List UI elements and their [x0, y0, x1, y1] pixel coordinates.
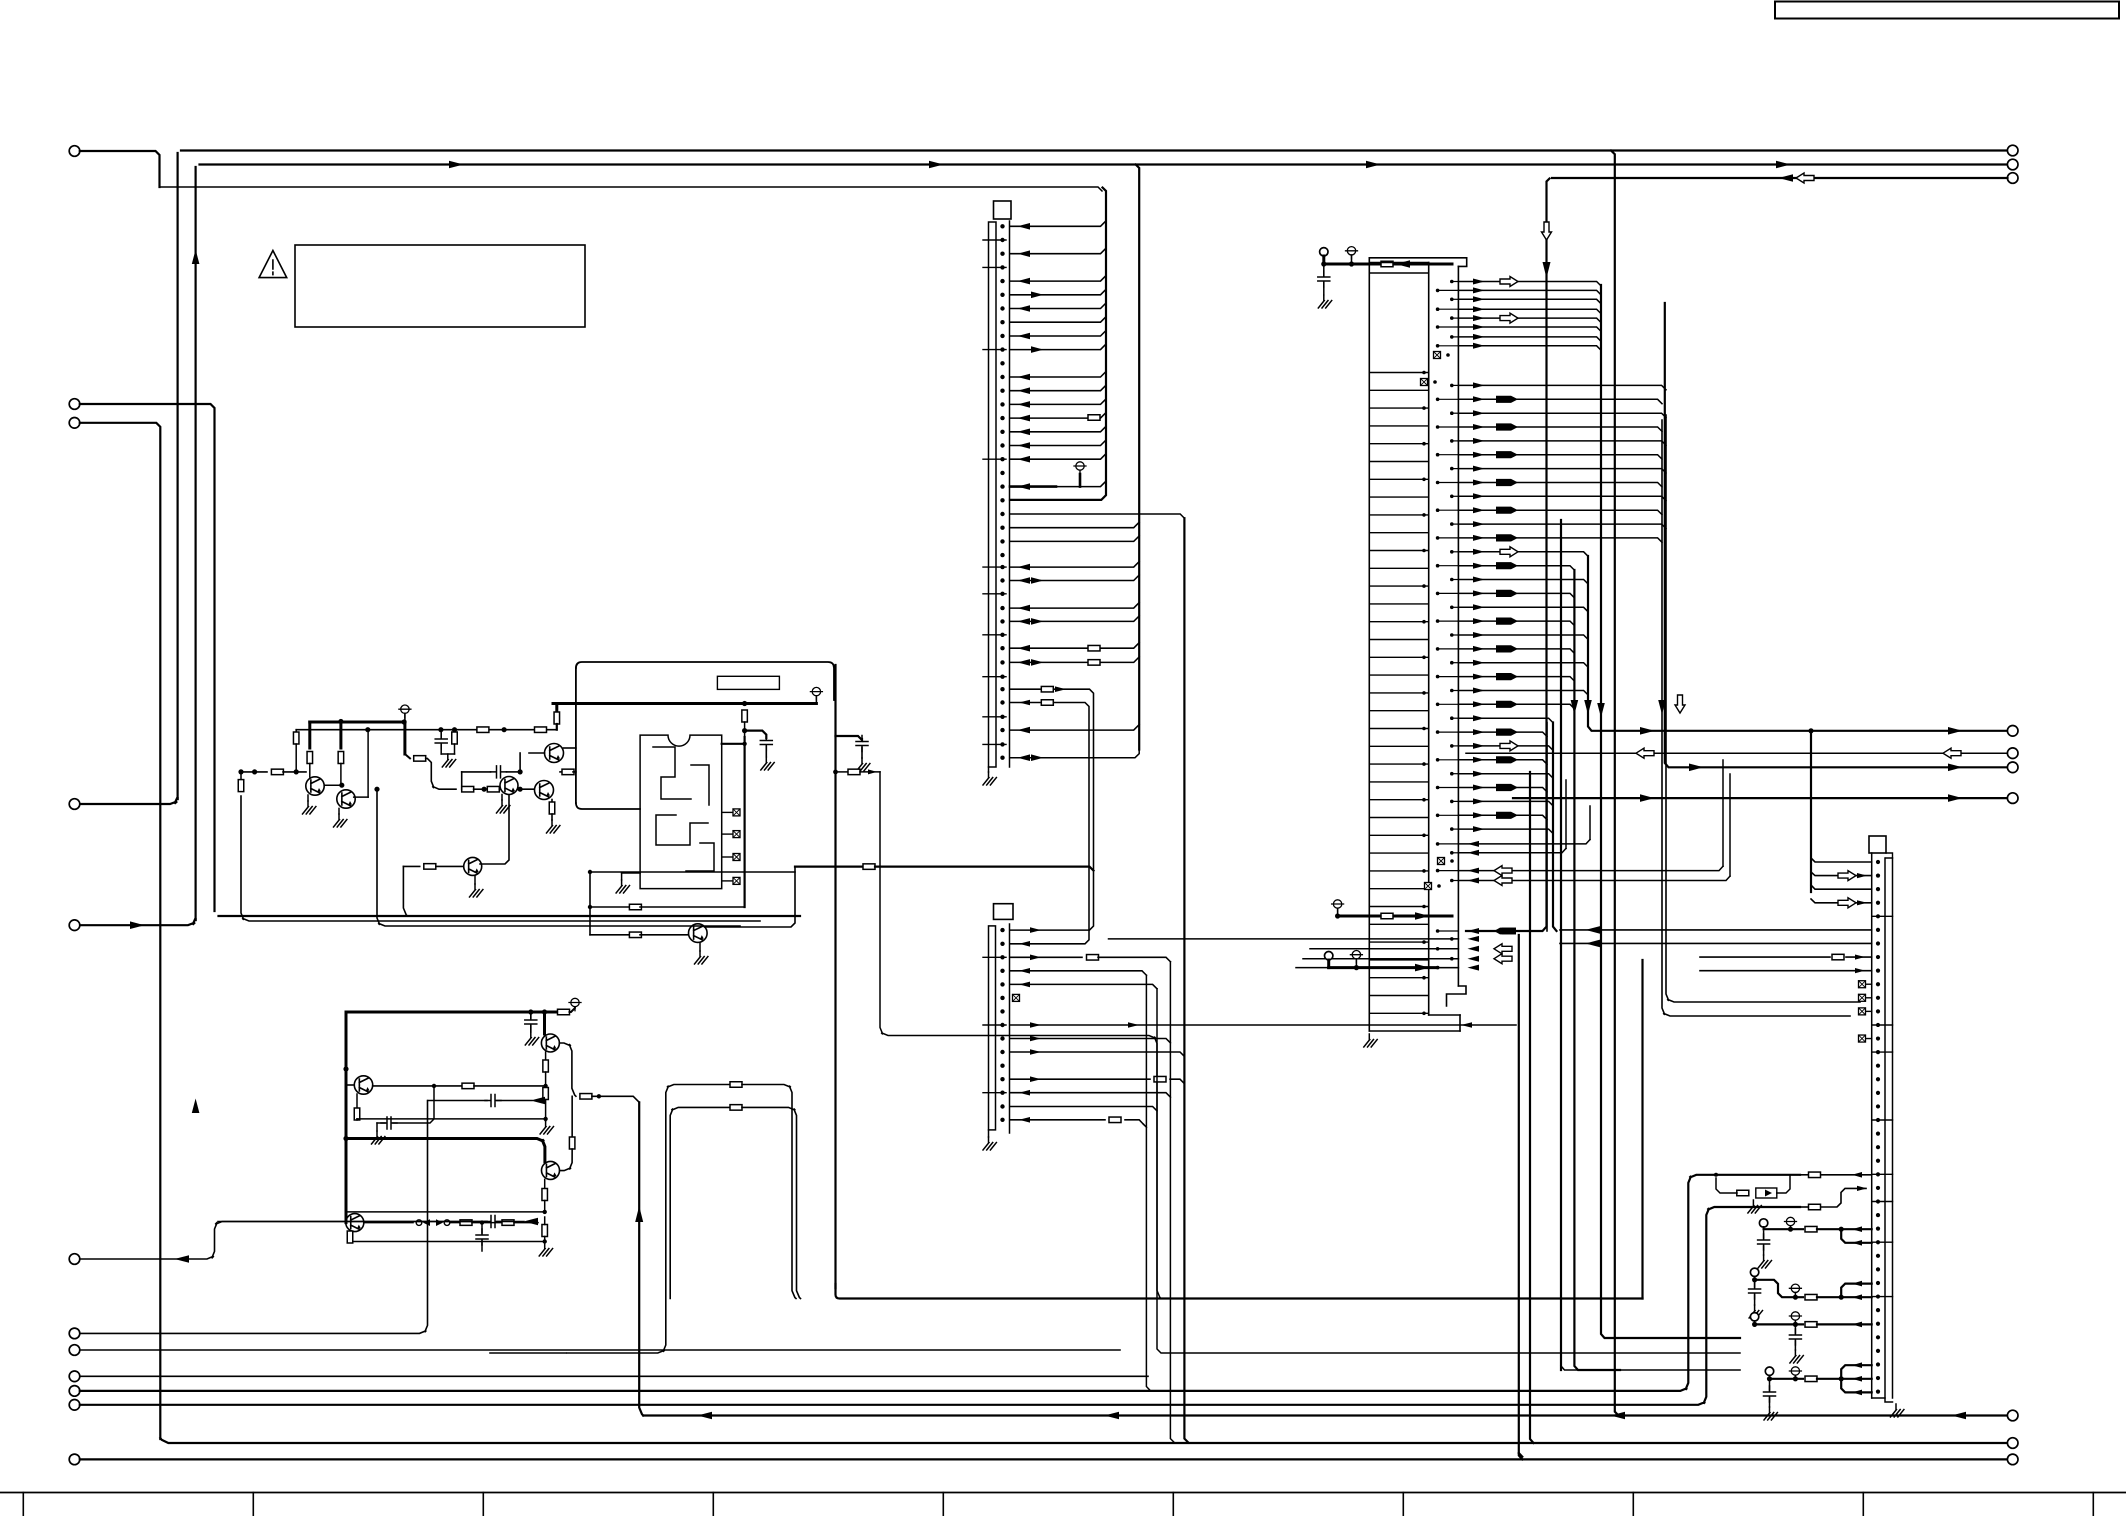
- IC1 top terminal circle: [1320, 248, 1328, 256]
- wire after resistor: [1394, 263, 1452, 266]
- bottom border rule: [0, 1492, 2126, 1494]
- IC1 block H arrows: [1468, 841, 1480, 847]
- connector CN2 key square: [994, 904, 1014, 920]
- lower cluster top bus: [346, 1011, 557, 1014]
- left terminal CN-A12: [69, 1386, 80, 1397]
- transistor Q-c4: [535, 781, 554, 800]
- capacitor C-c2: [461, 772, 463, 789]
- wire CN2 pin12: [1010, 1078, 1150, 1080]
- connector CN3 NC pins: [1866, 983, 1872, 985]
- transistor Q-c3: [545, 744, 564, 763]
- open arrows H: [1494, 866, 1512, 876]
- wire y1459: [80, 1458, 2008, 1460]
- capacitor RC-D: [1769, 1381, 1771, 1390]
- right terminal CN-B8: [2007, 1438, 2018, 1449]
- ground lower cap: [525, 1032, 538, 1045]
- IC1 left lower terminal: [1325, 952, 1333, 960]
- connector CN1 key square: [994, 201, 1012, 219]
- wire y1350: [80, 1349, 1120, 1351]
- vertical VB4: [1611, 151, 1619, 1416]
- bold arrow H1: [1496, 928, 1516, 935]
- resistor R-l5: [544, 1179, 546, 1188]
- left terminal CN-A13: [69, 1400, 80, 1411]
- wire c8 to row: [426, 758, 456, 789]
- wire Q-l4 collector: [364, 1222, 413, 1224]
- wire top bus line 2: [200, 163, 2008, 165]
- CN3 top feed vertical: [1810, 731, 1812, 892]
- connector CN1 wire arrows left: [1018, 223, 1031, 230]
- IC1 bold arrows: [1496, 396, 1518, 403]
- resistor R-c5: [477, 727, 489, 733]
- vertical VB5: [1641, 960, 1643, 1299]
- diode network: [1737, 1190, 1749, 1196]
- connector CN3 notch: [1886, 853, 1893, 858]
- resistor R-c8: [405, 754, 410, 758]
- wire Q-l1 base: [346, 1084, 353, 1086]
- RC network row B: [1750, 1268, 1758, 1276]
- resistor R-l7: [349, 1232, 351, 1234]
- cap row 1: [428, 1100, 487, 1102]
- VB2 arrows: [1542, 222, 1552, 240]
- wire CN2 pin13: [1010, 1093, 1170, 1097]
- connector CN1 spine: [989, 222, 997, 767]
- capacitor RC-A: [1763, 1231, 1765, 1238]
- wire CN2 pin14: [1010, 1107, 1157, 1111]
- transistor Q-c1: [306, 777, 324, 795]
- open arrow A1: [1500, 277, 1518, 287]
- left input wire: [241, 771, 267, 773]
- resistor R-IC1top: [1381, 261, 1393, 267]
- chassis ref CN1: [1076, 462, 1084, 470]
- arrow into V3: [130, 921, 145, 929]
- IC1 pin rail: [1457, 266, 1459, 986]
- wire Q-l1 emitter: [356, 1094, 358, 1108]
- ground RC-c1: [441, 753, 454, 755]
- wire y753 line: [1466, 752, 2008, 754]
- arrows on y730 line: [1640, 727, 1655, 735]
- arrow on bus2 c: [1366, 161, 1381, 169]
- ground IC1 top: [1318, 295, 1331, 308]
- resistor R-c14: [240, 772, 242, 780]
- resistor R-c13: [424, 864, 436, 870]
- wire y1391 to right up: [80, 1175, 1800, 1391]
- IC1 left lower chassis: [1352, 951, 1360, 959]
- resistor R-c7: [271, 769, 283, 775]
- cluster to module resistor: [554, 712, 560, 724]
- cluster bundle c: [377, 789, 740, 926]
- right terminal CN-B9: [2007, 1410, 2018, 1421]
- module bottom bundle: [836, 1284, 1643, 1299]
- up arrow on V3 upper: [192, 250, 200, 265]
- wire CN2 pin15: [1010, 1119, 1105, 1121]
- cluster chassis ref: [401, 705, 409, 713]
- ground Q-c4: [547, 820, 560, 833]
- IC1 NC pins: [1434, 352, 1441, 359]
- vertical VB1: [1530, 772, 1534, 1443]
- wire Q-c1 collector: [324, 784, 341, 786]
- right terminal CN-B10: [2007, 1454, 2018, 1465]
- capacitor C-l2: [481, 1223, 483, 1233]
- cluster thick drop c: [403, 722, 406, 754]
- resistor R-mod1: [742, 710, 748, 722]
- vertical bus V2: [177, 153, 179, 799]
- corner V2 to left terminal: [80, 797, 178, 804]
- connector CN2 spine: [989, 926, 996, 1130]
- VB1 join: [1519, 1453, 1523, 1457]
- connector CN3 spine right: [1884, 858, 1886, 1398]
- left terminal CN-A10: [69, 1345, 80, 1356]
- CN3 wire 8: [1700, 970, 1872, 972]
- ground Q-mod: [699, 942, 701, 951]
- wire CN-A2 down right frame: [80, 404, 215, 911]
- module top rail: [553, 702, 816, 705]
- connector CN3 pin dots: [1876, 860, 1880, 864]
- CN3 wire 1207: [1809, 1204, 1821, 1210]
- arrows y1415: [698, 1412, 713, 1420]
- resistor R-l1: [462, 1083, 474, 1089]
- vertical net V5: [1184, 518, 1188, 1442]
- connector CN2 NC pin: [1013, 994, 1020, 1001]
- IC1 block A wires: [1458, 282, 1601, 351]
- chassis lower bus: [571, 998, 579, 1006]
- vertical VB2: [1466, 179, 1550, 932]
- RC network row D: [1765, 1367, 1773, 1375]
- wire net SDA top thin: [160, 187, 1103, 191]
- ground RC-A: [1758, 1255, 1771, 1268]
- vertical net V4: [1136, 165, 1140, 750]
- wire right mid horizontal 2: [1662, 420, 1850, 1016]
- IC2 NC pins: [722, 811, 733, 813]
- capacitor RC-B: [1754, 1282, 1756, 1287]
- resistor R-l12: [730, 1105, 742, 1111]
- right terminal CN-B1: [2007, 145, 2018, 156]
- wire right mid horizontal 1: [1666, 415, 1860, 1002]
- IC1 right pin dots: [1450, 280, 1454, 284]
- ruler ticks: [23, 1493, 2093, 1516]
- wire CN2 pin10: [1010, 1052, 1184, 1056]
- transistor Q-mod: [689, 924, 708, 943]
- connector CN1 fan wires lower: [1010, 522, 1139, 730]
- IC1 left thick feed: [1333, 900, 1341, 908]
- CN3 wire 1174: [1809, 1172, 1821, 1178]
- wire row 1084 down: [742, 1085, 796, 1299]
- transistor Q-c2: [337, 790, 355, 808]
- wire row to Q-c4 base: [499, 788, 534, 790]
- wire node to V-out: [592, 1096, 639, 1102]
- ground RC-C: [1790, 1350, 1803, 1363]
- left terminal CN-A2: [69, 399, 80, 410]
- arrow on line3 solid: [1779, 174, 1794, 182]
- down arrows group mid: [1658, 700, 1666, 715]
- wire row 1107: [670, 1107, 729, 1298]
- connector CN3 bottom: [1872, 1398, 1893, 1402]
- cap row 2 redo: [80, 1222, 487, 1260]
- vertical CN2-V1: [1146, 975, 1150, 1390]
- ground Q-l2: [545, 1119, 547, 1121]
- wire from CN-A1 to mid bus: [80, 151, 160, 187]
- resistor R-c11: [551, 800, 553, 803]
- wire CN1 pin11 to CN2 pin2: [1010, 702, 1040, 704]
- resistor R-mod4: [863, 864, 875, 870]
- vertical bundle VA2: [1588, 556, 2008, 731]
- left terminal CN-A8: [69, 1254, 80, 1265]
- wire Q-c3 base: [529, 752, 545, 754]
- wire CN-A3 down V1: [80, 423, 161, 1439]
- connector CN3 ticks: [1872, 916, 1893, 1296]
- capacitor C-l1: [377, 1122, 385, 1124]
- connector CN2 ground: [988, 1130, 990, 1137]
- ground Q-c1: [307, 795, 309, 801]
- IC2 DIP outline: [640, 735, 722, 889]
- IC1 H riser b: [1565, 780, 1567, 848]
- left terminal CN-A1: [69, 146, 80, 157]
- IC1 H riser a: [1589, 806, 1591, 840]
- wire Q-mod collector: [705, 868, 796, 927]
- transistor Q-l2: [541, 1034, 559, 1052]
- IC1 H riser d: [1729, 774, 1731, 876]
- open arrow mid1: [1500, 547, 1518, 557]
- connector CN1 fan bottom corner: [1010, 750, 1139, 758]
- resistor R-c9: [462, 786, 474, 792]
- wire row 1211: [346, 1211, 545, 1213]
- module chassis ref: [812, 687, 820, 695]
- wire CN2 pin3: [1010, 956, 1082, 958]
- IC1 chassis ref: [1347, 247, 1355, 255]
- wire y1405 to right up: [80, 1207, 1800, 1405]
- cluster thick bus: [310, 721, 405, 724]
- wire cap to Q-c3: [519, 753, 521, 772]
- IC2 left ground: [621, 873, 623, 880]
- arrow on bus2 d: [1776, 161, 1791, 169]
- IC1 body outline: [1369, 258, 1466, 267]
- wire CN2 pin8 long right: [1010, 1024, 1516, 1026]
- wire row 1241: [350, 1241, 545, 1243]
- capacitor RC-C: [1794, 1326, 1796, 1333]
- ground C-l1: [376, 1123, 378, 1131]
- arrow on bus2 b: [929, 161, 944, 169]
- wire module out down: [880, 772, 1161, 1299]
- resistor R CN1b: [1088, 660, 1100, 666]
- connector CN2 left ticks: [983, 957, 1006, 1092]
- wire y767 line: [1665, 303, 2008, 767]
- wire Q-c2 collector: [354, 796, 368, 798]
- IC1 ground bottom: [1364, 1034, 1377, 1047]
- resistor R-c6: [535, 727, 547, 733]
- mid line y1353: [567, 1085, 729, 1354]
- wire mod1: [744, 722, 746, 744]
- wire Q-l2 collector: [559, 1043, 576, 1096]
- vertical VB3: [1553, 723, 1557, 932]
- transistor Q-l3: [542, 1161, 560, 1179]
- IC1 supply wire: [1322, 256, 1325, 264]
- open arrow A2: [1500, 313, 1518, 323]
- connector CN3 spine left: [1871, 853, 1873, 1398]
- resistor R-c10: [487, 786, 499, 792]
- wire y1376: [80, 1375, 1148, 1377]
- cap row 2: [218, 1221, 487, 1223]
- vertical CN2-V2: [1157, 989, 1740, 1353]
- corner V3 to left terminal: [80, 918, 196, 925]
- IC1 H riser c: [1722, 760, 1724, 866]
- arrow row2: [175, 1255, 190, 1263]
- cluster rail 729: [296, 729, 557, 731]
- cluster thick drop b: [339, 722, 342, 749]
- RC network row C: [1750, 1313, 1758, 1321]
- arrows y798: [1640, 794, 1655, 802]
- CN3 feed wires: [1811, 858, 1872, 862]
- title block: [1775, 2, 2119, 19]
- connector CN3 key square: [1869, 836, 1886, 853]
- lower cluster left rail: [345, 1012, 348, 1139]
- wire Q-c5 base: [403, 865, 419, 867]
- warning triangle: [259, 251, 287, 278]
- module label box: [717, 676, 779, 689]
- ground Q-c6: [501, 795, 503, 801]
- CN3 feed arrows: [1838, 871, 1856, 881]
- wire bus line 3 right: [1552, 177, 2008, 179]
- right terminal CN-B2: [2007, 159, 2018, 170]
- wire input to base: [283, 771, 306, 773]
- IC1 tie dots: [1422, 371, 1426, 375]
- connector CN2 pin dots: [1000, 928, 1004, 932]
- wire CN1 pin10 to CN2 pin1: [1010, 688, 1040, 690]
- arrows y767: [1689, 764, 1704, 772]
- resistor R-l10 inline: [558, 1009, 570, 1015]
- resistor R-l6: [542, 1225, 548, 1237]
- bus to chassis: [570, 1007, 576, 1012]
- ground RC-D: [1764, 1407, 1777, 1420]
- connector CN1 fan vertical upper: [1010, 188, 1106, 500]
- arrow on line3 open: [1796, 173, 1814, 183]
- connector CN3 ground: [1891, 1404, 1904, 1417]
- capacitor C-mod2: [836, 736, 863, 740]
- resistor R-c3: [338, 752, 344, 764]
- resistor R-l2: [545, 1052, 547, 1060]
- connector CN1 wire arrows right: [1031, 292, 1044, 299]
- RC network row A: [1759, 1219, 1767, 1227]
- right terminal CN-B5: [2007, 748, 2018, 759]
- lower cluster out vertical: [639, 1102, 643, 1415]
- connector CN1 ground: [988, 767, 990, 772]
- up arrow lower: [635, 1206, 643, 1222]
- CN3 res wire: [1700, 956, 1830, 958]
- right terminal CN-B3: [2007, 173, 2018, 184]
- ground Q-c2: [338, 808, 340, 814]
- resistor R-l4h: [580, 1094, 592, 1100]
- wire Q-l2: [543, 1012, 546, 1034]
- left terminal CN-A11: [69, 1371, 80, 1382]
- wire row 1107 down: [742, 1107, 801, 1298]
- left terminal CN-A5: [69, 920, 80, 931]
- resistor R-c2: [307, 752, 313, 764]
- CN3 in wires mid: [1560, 929, 1872, 931]
- IC1 internal ties: [1369, 273, 1428, 1013]
- ground Q-c5: [474, 876, 476, 885]
- wire Q-l1 collector: [373, 1085, 462, 1087]
- wire CN2 pin9: [1010, 1039, 1170, 1043]
- resistor R-mod2: [590, 906, 631, 908]
- wire Q-c3 collector/bus: [564, 747, 576, 749]
- ground C-mod2: [857, 758, 870, 771]
- transistor Q-c6: [500, 777, 518, 795]
- cluster thick drop a: [308, 722, 311, 748]
- wire mod link cont: [875, 867, 1094, 871]
- wire row 789: [474, 788, 482, 790]
- up arrow on V3 lower: [192, 1099, 200, 1114]
- IC1 block A arrows: [1473, 279, 1485, 285]
- right terminal CN-B4: [2007, 726, 2018, 737]
- right terminal CN-B6: [2007, 762, 2018, 773]
- wire y798 line: [1513, 797, 2008, 799]
- connector CN1 fan wires upper: [1010, 221, 1106, 487]
- resistor R-mod3: [590, 934, 631, 936]
- ground C-mod1: [761, 757, 774, 770]
- resistor R-c12: [560, 771, 563, 773]
- arrow on bus2 a: [449, 161, 464, 169]
- ground Q-l3: [544, 1242, 546, 1244]
- resistor R-mod5: [833, 770, 838, 775]
- vertical bus V3: [195, 167, 197, 920]
- capacitor C-c1: [435, 733, 447, 749]
- vertical CN2-V3: [1170, 962, 1174, 1443]
- resistor R CN1a: [1088, 645, 1100, 651]
- IC2 internal gates: [653, 747, 709, 845]
- lower cluster cap: [530, 1012, 532, 1018]
- wire CN2 pin4: [1010, 971, 1146, 975]
- wire lower rail drop: [345, 1139, 348, 1223]
- connector CN1 left ticks: [983, 240, 1006, 744]
- wire Q-c5 in: [403, 866, 407, 916]
- arrow CN2 pin1: [1030, 927, 1041, 933]
- wire CN2 pin6: [1010, 984, 1157, 988]
- wire V1 bottom to right: [160, 1438, 2007, 1443]
- left terminal CN-A9: [69, 1328, 80, 1339]
- open arrows y753: [1636, 748, 1654, 758]
- capacitor C-mod1: [745, 731, 767, 738]
- vertical bundle VA3: [1601, 285, 1740, 1338]
- IC2 right rail thick: [743, 737, 745, 907]
- warning note box: [295, 245, 585, 327]
- IC1 block B-G wires: [1458, 385, 1666, 833]
- resistor R-c4: [454, 730, 456, 732]
- fan jog pin wire: [1010, 514, 1184, 518]
- ground RC-B: [1749, 1305, 1762, 1318]
- cluster bundle b: [241, 796, 760, 921]
- wire top bus line 1: [181, 149, 2008, 151]
- arrow CN2 pin2: [1019, 941, 1030, 947]
- transistor Q-l1: [354, 1076, 372, 1094]
- mid line left bit: [490, 1352, 566, 1354]
- wire Q-l1 e2: [357, 1118, 546, 1120]
- module top rail stub: [555, 704, 558, 713]
- transistor Q-l4: [346, 1214, 364, 1232]
- IC1 block B-G small arrows: [1473, 382, 1485, 388]
- resistor R-l8: [460, 1220, 472, 1226]
- IC1 left lower feed: [1327, 960, 1330, 968]
- cluster frame bottom: [219, 915, 801, 917]
- right terminal CN-B7: [2007, 793, 2018, 804]
- wire Q-c5 collector: [480, 794, 509, 864]
- left terminal CN-A14: [69, 1454, 80, 1465]
- transistor Q-c5: [464, 857, 482, 875]
- capacitor C-IC1top: [1323, 264, 1325, 276]
- diode pair D-l1: [416, 1220, 422, 1226]
- resistor R CN1c: [1088, 415, 1100, 421]
- line y1415: [643, 1414, 2007, 1416]
- cap row 1 left: [80, 1101, 428, 1334]
- resistor R-l3: [543, 1088, 549, 1100]
- lower cluster rail 2: [346, 1139, 545, 1162]
